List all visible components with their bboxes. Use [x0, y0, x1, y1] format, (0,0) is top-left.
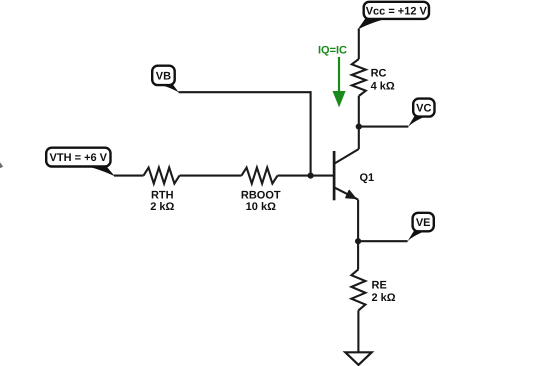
- svg-text:IQ=IC: IQ=IC: [318, 45, 347, 57]
- svg-text:2 kΩ: 2 kΩ: [150, 201, 174, 213]
- svg-text:RBOOT: RBOOT: [241, 189, 281, 201]
- svg-text:VTH = +6 V: VTH = +6 V: [50, 152, 108, 164]
- svg-text:4 kΩ: 4 kΩ: [371, 81, 395, 93]
- svg-text:VE: VE: [416, 217, 431, 229]
- svg-text:2 kΩ: 2 kΩ: [372, 292, 396, 304]
- svg-text:10 kΩ: 10 kΩ: [246, 201, 276, 213]
- svg-text:VB: VB: [156, 70, 171, 82]
- svg-text:Q1: Q1: [360, 172, 375, 184]
- svg-text:VC: VC: [416, 103, 431, 115]
- svg-text:Vcc = +12 V: Vcc = +12 V: [366, 5, 428, 17]
- svg-text:RTH: RTH: [151, 189, 174, 201]
- svg-text:RE: RE: [372, 279, 387, 291]
- svg-text:RC: RC: [371, 68, 387, 80]
